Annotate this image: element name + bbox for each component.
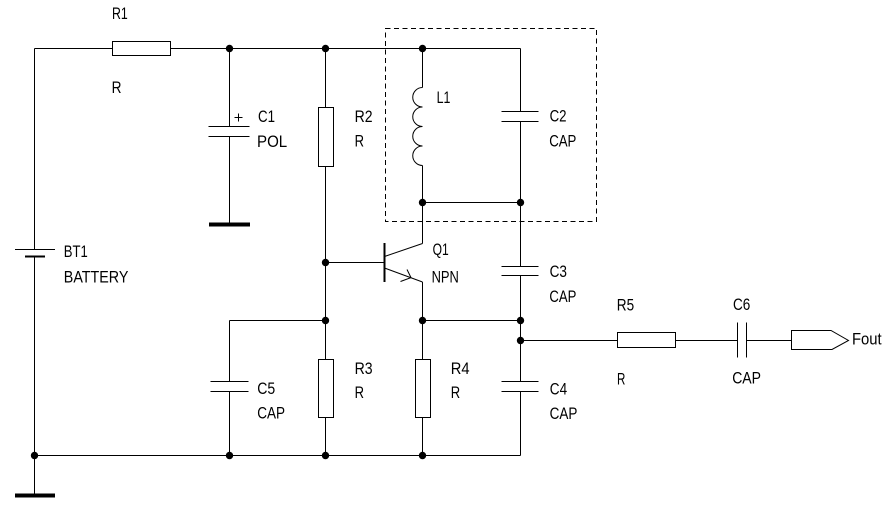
svg-text:C6: C6 [733,296,750,314]
svg-text:Q1: Q1 [433,241,449,259]
svg-text:BATTERY: BATTERY [64,268,129,286]
svg-text:NPN: NPN [432,269,459,287]
svg-text:R: R [451,384,460,402]
svg-text:R3: R3 [355,360,373,378]
svg-text:R: R [617,370,625,388]
svg-text:CAP: CAP [549,133,576,151]
svg-text:R: R [112,79,122,97]
svg-text:CAP: CAP [549,288,576,306]
svg-text:CAP: CAP [257,405,285,423]
svg-text:R: R [355,133,364,151]
svg-text:CAP: CAP [732,369,761,387]
svg-text:Fout: Fout [852,330,882,348]
svg-text:CAP: CAP [550,405,578,423]
svg-text:R5: R5 [617,296,634,314]
svg-text:BT1: BT1 [64,243,88,261]
svg-text:R1: R1 [112,5,128,23]
svg-text:R4: R4 [451,360,470,378]
svg-text:C3: C3 [550,263,567,281]
svg-text:C4: C4 [550,380,567,398]
svg-text:POL: POL [257,133,287,151]
svg-text:C5: C5 [257,380,275,398]
svg-text:L1: L1 [437,89,451,107]
svg-text:R2: R2 [355,108,373,126]
svg-text:C1: C1 [258,108,275,126]
svg-text:C2: C2 [550,108,567,126]
svg-text:R: R [355,384,364,402]
